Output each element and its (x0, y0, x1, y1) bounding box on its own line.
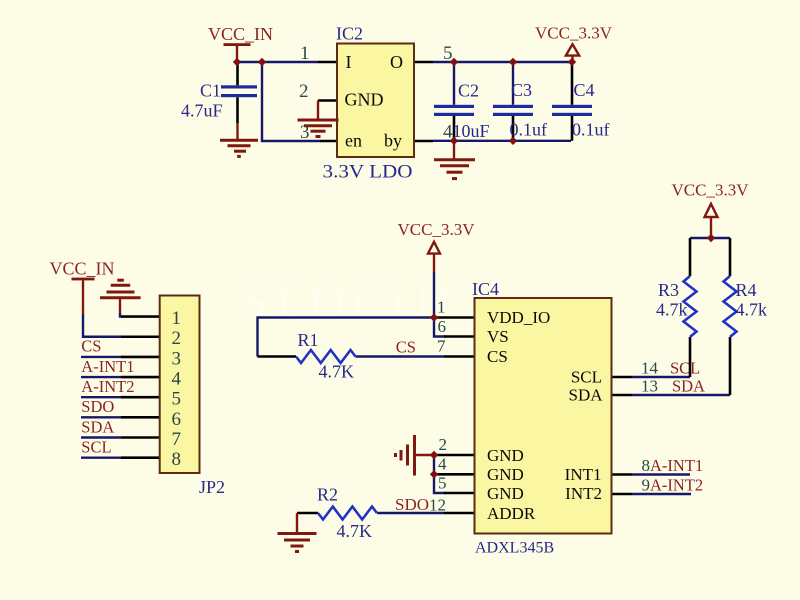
svg-text:INT2: INT2 (565, 484, 602, 503)
svg-text:R3: R3 (658, 280, 679, 300)
svg-text:4: 4 (438, 455, 447, 474)
svg-text:SDA: SDA (81, 417, 114, 436)
svg-text:2: 2 (439, 435, 448, 454)
svg-text:GND: GND (487, 465, 524, 484)
svg-text:3: 3 (172, 348, 182, 369)
svg-text:SCL: SCL (81, 438, 111, 457)
svg-text:by: by (384, 131, 402, 151)
svg-text:ADDR: ADDR (487, 504, 536, 523)
svg-text:0.1uf: 0.1uf (572, 120, 610, 140)
svg-text:I: I (346, 52, 352, 72)
svg-text:R2: R2 (317, 485, 338, 505)
svg-text:4: 4 (172, 369, 182, 390)
svg-text:C1: C1 (200, 81, 221, 101)
svg-text:3: 3 (300, 122, 310, 143)
svg-text:8: 8 (642, 456, 651, 475)
svg-text:VCC_3.3V: VCC_3.3V (398, 220, 476, 239)
svg-text:SDA: SDA (672, 377, 705, 396)
svg-text:7: 7 (437, 337, 446, 356)
svg-text:ADXL345B: ADXL345B (475, 540, 554, 557)
svg-text:SCL: SCL (670, 359, 700, 378)
svg-text:C2: C2 (458, 81, 479, 101)
svg-text:4.7K: 4.7K (337, 521, 373, 541)
svg-text:C3: C3 (511, 80, 532, 100)
svg-text:1: 1 (172, 308, 182, 329)
svg-text:IC4: IC4 (472, 279, 499, 299)
svg-text:SDO: SDO (395, 495, 429, 514)
svg-text:CS: CS (81, 337, 101, 356)
svg-text:CS: CS (487, 347, 508, 366)
svg-text:R4: R4 (736, 280, 757, 300)
svg-text:VCC_3.3V: VCC_3.3V (535, 24, 613, 43)
svg-text:SDA: SDA (568, 386, 603, 405)
svg-text:8: 8 (172, 449, 182, 470)
svg-text:10uF: 10uF (453, 121, 490, 141)
svg-text:4.7k: 4.7k (736, 300, 768, 320)
svg-text:SCL: SCL (571, 368, 602, 387)
svg-text:CS: CS (396, 338, 416, 357)
svg-text:12: 12 (429, 496, 446, 515)
svg-text:O: O (390, 52, 403, 72)
svg-text:IC2: IC2 (336, 24, 363, 44)
svg-text:VCC_IN: VCC_IN (50, 259, 115, 279)
svg-text:A-INT1: A-INT1 (650, 456, 703, 475)
svg-text:5: 5 (443, 43, 453, 64)
svg-text:6: 6 (172, 409, 182, 430)
svg-text:R1: R1 (298, 330, 319, 350)
svg-text:VCC_IN: VCC_IN (208, 24, 273, 44)
svg-text:6: 6 (438, 317, 447, 336)
svg-text:0.1uf: 0.1uf (510, 120, 548, 140)
svg-text:9: 9 (642, 476, 651, 495)
svg-text:GND: GND (487, 484, 524, 503)
svg-text:4.7k: 4.7k (656, 300, 688, 320)
svg-text:SDO: SDO (81, 397, 114, 416)
svg-text:2: 2 (172, 328, 182, 349)
svg-text:GND: GND (487, 446, 524, 465)
svg-text:A-INT2: A-INT2 (81, 377, 134, 396)
svg-text:4.7K: 4.7K (319, 362, 355, 382)
svg-text:5: 5 (438, 474, 447, 493)
svg-text:14: 14 (641, 359, 659, 378)
svg-text:VDD_IO: VDD_IO (487, 308, 550, 327)
svg-text:13: 13 (641, 377, 658, 396)
svg-text:JP2: JP2 (199, 477, 225, 497)
svg-text:5: 5 (172, 389, 182, 410)
svg-text:INT1: INT1 (565, 465, 602, 484)
svg-text:en: en (345, 131, 362, 151)
svg-text:3.3V LDO: 3.3V LDO (323, 162, 413, 183)
svg-text:2: 2 (299, 81, 309, 102)
svg-text:4: 4 (443, 122, 453, 143)
svg-text:VCC_3.3V: VCC_3.3V (672, 181, 750, 200)
svg-text:C4: C4 (574, 80, 595, 100)
svg-text:VS: VS (487, 327, 509, 346)
svg-text:1: 1 (437, 298, 446, 317)
svg-text:GND: GND (345, 90, 384, 110)
svg-text:A-INT2: A-INT2 (650, 476, 703, 495)
svg-text:7: 7 (172, 429, 182, 450)
svg-text:A-INT1: A-INT1 (81, 357, 134, 376)
svg-text:4.7uF: 4.7uF (181, 101, 223, 121)
svg-text:1: 1 (300, 43, 310, 64)
